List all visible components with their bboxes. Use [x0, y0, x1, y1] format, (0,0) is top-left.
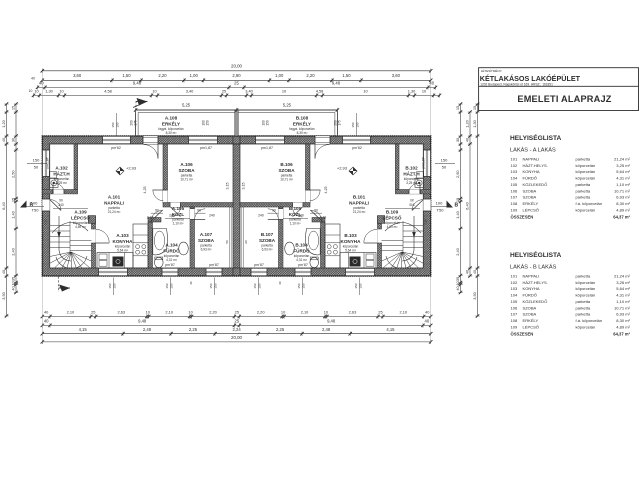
svg-text:2,63: 2,63 [349, 310, 357, 315]
svg-text:5,64 m²: 5,64 m² [345, 248, 356, 252]
svg-text:150: 150 [108, 283, 112, 288]
room label B.104 FURDO [293, 243, 310, 262]
svg-text:5,64 m²: 5,64 m² [117, 248, 128, 252]
apartment wing: bottom wall window (kitchen) [346, 268, 375, 276]
svg-text:4,31 m²: 4,31 m² [616, 293, 630, 298]
extension lines [42, 71, 430, 342]
washing machine in A.102 [415, 172, 423, 188]
svg-text:A.106: A.106 [180, 162, 193, 167]
svg-text:SZOBA: SZOBA [523, 312, 537, 317]
svg-text:8,30 m²: 8,30 m² [616, 318, 630, 323]
svg-text:KONYHA: KONYHA [523, 286, 540, 291]
svg-text:101: 101 [511, 157, 519, 162]
svg-text:107: 107 [511, 312, 519, 317]
svg-text:NAPPALI: NAPPALI [523, 274, 540, 279]
svg-text:150: 150 [214, 283, 218, 288]
svg-text:3,15: 3,15 [242, 183, 246, 190]
svg-text:ÖSSZESEN: ÖSSZESEN [511, 332, 534, 337]
apartment wing: bottom wall window (bathroom) [162, 268, 178, 276]
kitchen tall cabinets / fridge column [325, 224, 340, 268]
washbasin in A.104 [285, 242, 295, 255]
svg-text:A.109: A.109 [74, 210, 87, 215]
svg-text:6,93 m²: 6,93 m² [616, 195, 630, 200]
bottom dimension chain 9,48 [41, 319, 433, 328]
svg-text:102: 102 [511, 163, 519, 168]
wall bathroom / room A.107 [268, 207, 283, 268]
svg-text:T50: T50 [437, 208, 445, 213]
svg-text:1,50: 1,50 [122, 73, 131, 78]
svg-text:2,48: 2,48 [322, 327, 331, 332]
svg-text:175: 175 [337, 120, 341, 126]
right inner dimension chain [455, 102, 463, 294]
svg-text:LAKÁS - A LAKÁS: LAKÁS - A LAKÁS [510, 147, 556, 154]
svg-text:3,25 m²: 3,25 m² [616, 163, 630, 168]
svg-text:pm1,87: pm1,87 [46, 157, 50, 168]
shaft lining next to party wall [242, 207, 248, 268]
bottom dimension chain overall 20,00 [41, 335, 433, 344]
svg-text:1,20: 1,20 [1, 119, 6, 127]
svg-text:40: 40 [44, 319, 49, 324]
kitchen tall cabinets / fridge column [133, 224, 148, 268]
svg-text:150: 150 [209, 283, 213, 288]
apartment wing: left wall window (HAZT.H) [423, 150, 430, 177]
svg-text:LAKÁS - B LAKÁS: LAKÁS - B LAKÁS [510, 264, 557, 271]
svg-text:150: 150 [354, 283, 358, 288]
mini dimension lines hall doors [268, 213, 323, 218]
svg-text:3,25 m²: 3,25 m² [56, 181, 67, 185]
svg-text:B.103: B.103 [344, 233, 357, 238]
svg-text:40: 40 [429, 81, 434, 86]
top dimension chain 9,48 [36, 81, 437, 90]
staircase A.109 treads [40, 216, 101, 284]
svg-text:1,10 m²: 1,10 m² [616, 299, 630, 304]
svg-text:2,10: 2,10 [400, 310, 408, 315]
svg-text:2,10: 2,10 [67, 310, 75, 315]
svg-text:HÁZT.HELYS.: HÁZT.HELYS. [523, 280, 548, 285]
svg-text:4,25: 4,25 [324, 187, 328, 194]
svg-text:f.á. kőporcelán: f.á. kőporcelán [576, 201, 603, 206]
svg-text:3,60: 3,60 [392, 73, 401, 78]
svg-text:90: 90 [197, 209, 201, 213]
svg-text:kőporcelán: kőporcelán [576, 280, 596, 285]
svg-text:150: 150 [170, 283, 174, 288]
parapet labels side walls [44, 157, 428, 225]
bathtub (corner) in A.104 [306, 229, 321, 255]
svg-text:105: 105 [511, 299, 519, 304]
svg-text:FÜRDŐ: FÜRDŐ [293, 247, 310, 253]
svg-text:50: 50 [225, 240, 229, 244]
kitchen counter with sink and stove [97, 253, 133, 269]
wall kitchen / bathroom [148, 218, 161, 269]
svg-text:kőporcelán: kőporcelán [576, 286, 596, 291]
svg-text:6,93 m²: 6,93 m² [201, 247, 212, 251]
svg-text:1202 Budapest, Nagykőrösi út 1: 1202 Budapest, Nagykőrösi út 169. HRSZ.:… [480, 82, 553, 86]
window size marks above top wall (living room windows) [111, 113, 360, 136]
svg-text:240: 240 [169, 214, 175, 218]
top dimension chain detail [32, 88, 441, 97]
svg-text:pm'62: pm'62 [111, 146, 121, 150]
svg-text:kőporcelán: kőporcelán [576, 163, 596, 168]
room label B.105 KOZL [289, 206, 302, 225]
svg-text:2,10: 2,10 [424, 219, 428, 225]
svg-text:9,48: 9,48 [133, 81, 142, 86]
apartment wing: top wall window (living room) [103, 136, 131, 144]
svg-text:NAPPALI: NAPPALI [104, 200, 124, 205]
svg-text:SZOBA: SZOBA [523, 305, 537, 310]
svg-text:2,10: 2,10 [147, 216, 154, 220]
room label A.106 SZOBA [178, 162, 195, 181]
wall kitchen / bathroom [312, 218, 325, 269]
svg-text:21,24 m²: 21,24 m² [614, 157, 631, 162]
svg-text:64,37 m²: 64,37 m² [613, 215, 630, 220]
svg-text:40: 40 [39, 81, 44, 86]
apartment wing: entry door in left wall [42, 199, 61, 211]
svg-text:HÁZT.H: HÁZT.H [53, 170, 70, 176]
door leader label 100/T50 left with section mark B [20, 201, 44, 213]
svg-text:kőporcelán: kőporcelán [576, 207, 596, 212]
room label A.104 FURDO [163, 243, 180, 262]
svg-text:102: 102 [511, 280, 519, 285]
shaft lining next to party wall [225, 207, 231, 268]
door living room to bath corridor [151, 210, 163, 222]
svg-text:240: 240 [258, 214, 264, 218]
svg-text:109: 109 [511, 207, 519, 212]
svg-text:EMELETI ALAPRAJZ: EMELETI ALAPRAJZ [517, 94, 611, 104]
svg-text:B.101: B.101 [353, 195, 366, 200]
svg-text:100: 100 [436, 201, 443, 206]
svg-text:1,20: 1,20 [465, 119, 470, 127]
wall between HAZT.H and living room [395, 144, 399, 190]
parapet labels top wall [111, 146, 362, 150]
window leader label 150/50 left [27, 158, 47, 170]
room label A.102 HAZT.H [53, 166, 70, 185]
svg-text:1,40: 1,40 [455, 210, 460, 218]
apartment wing: top wall window (room A.106) [256, 136, 285, 144]
svg-text:1,40: 1,40 [11, 210, 16, 218]
svg-text:90: 90 [59, 199, 63, 203]
svg-text:5,25: 5,25 [283, 102, 292, 107]
svg-text:1,10 m²: 1,10 m² [616, 182, 630, 187]
svg-text:2,20: 2,20 [257, 310, 265, 315]
svg-text:2,48: 2,48 [143, 327, 152, 332]
svg-text:2,20: 2,20 [209, 310, 217, 315]
room list B table rows [511, 274, 631, 337]
svg-text:2,50: 2,50 [11, 170, 16, 178]
svg-text:B.106: B.106 [280, 162, 293, 167]
hall door size labels [385, 199, 420, 209]
svg-text:3,25 m²: 3,25 m² [616, 280, 630, 285]
window leader label 150/50 right [435, 158, 455, 170]
svg-text:6,40: 6,40 [465, 201, 470, 209]
svg-text:FÜRDŐ: FÜRDŐ [523, 176, 537, 181]
interior dimension labels [143, 183, 328, 220]
svg-text:104: 104 [511, 293, 519, 298]
top dimension chain overall 20,00 [41, 64, 433, 73]
svg-text:parketta: parketta [576, 195, 591, 200]
svg-text:4,89 m²: 4,89 m² [75, 225, 86, 229]
svg-text:3,40: 3,40 [186, 88, 194, 93]
svg-text:HÁZT.HELYS.: HÁZT.HELYS. [523, 163, 548, 168]
svg-text:2,63: 2,63 [117, 310, 125, 315]
room list A heading [510, 133, 562, 154]
svg-text:pm1,87: pm1,87 [261, 146, 273, 150]
svg-text:KONYHA: KONYHA [113, 239, 134, 244]
svg-text:9,48: 9,48 [332, 81, 341, 86]
apartment wing: bottom wall window (kitchen) [99, 268, 128, 276]
svg-text:150: 150 [165, 283, 169, 288]
svg-text:KÖZLEKEDŐ: KÖZLEKEDŐ [523, 182, 548, 187]
svg-text:21,24 m²: 21,24 m² [614, 274, 631, 279]
svg-text:A.105: A.105 [172, 206, 185, 211]
svg-text:1,30: 1,30 [45, 88, 53, 93]
room label B.108 ERKELY [289, 116, 314, 135]
svg-text:4,58: 4,58 [316, 88, 324, 93]
title block frame [479, 68, 639, 111]
bottom dimension chain rooms [41, 327, 433, 336]
svg-text:25: 25 [91, 310, 95, 315]
svg-text:107: 107 [511, 195, 519, 200]
level marker +2,93 (A) [116, 166, 137, 176]
balcony divider wall [235, 110, 238, 136]
svg-text:6,40: 6,40 [1, 201, 6, 209]
svg-text:10,71 m²: 10,71 m² [614, 305, 631, 310]
svg-text:9,48: 9,48 [138, 319, 147, 324]
building outline [42, 136, 430, 276]
WC in A.104 [310, 257, 319, 268]
svg-text:15: 15 [472, 106, 477, 110]
svg-text:5,64 m²: 5,64 m² [616, 169, 630, 174]
apartment wing: bottom wall window (bathroom) [295, 268, 311, 276]
svg-text:15: 15 [455, 106, 460, 110]
svg-text:3,60: 3,60 [73, 73, 82, 78]
svg-text:parketta: parketta [576, 157, 591, 162]
apartment B geometry (mirror of A) [240, 136, 433, 284]
room label A.103 KONYHA [113, 233, 134, 252]
svg-text:LÉPCSŐ: LÉPCSŐ [383, 213, 402, 220]
svg-text:5,64 m²: 5,64 m² [616, 286, 630, 291]
svg-text:parketta: parketta [576, 305, 591, 310]
svg-text:90: 90 [272, 209, 276, 213]
svg-text:150: 150 [356, 122, 360, 127]
room label B.109 LEPCSO [383, 210, 402, 229]
svg-text:240: 240 [298, 214, 304, 218]
svg-text:ERKÉLY: ERKÉLY [523, 201, 539, 206]
svg-text:40: 40 [189, 281, 193, 285]
svg-text:64,37 m²: 64,37 m² [613, 332, 630, 337]
svg-text:pm'62: pm'62 [352, 146, 362, 150]
svg-text:KÖZLEKEDŐ: KÖZLEKEDŐ [523, 299, 548, 304]
svg-text:B: B [30, 203, 34, 209]
svg-text:25: 25 [235, 310, 239, 315]
svg-text:103: 103 [511, 286, 519, 291]
svg-text:FÜRDŐ: FÜRDŐ [163, 247, 180, 253]
svg-text:pm'87: pm'87 [165, 263, 175, 267]
svg-text:B.104: B.104 [295, 243, 308, 248]
room label A.108 ERKELY [158, 116, 183, 135]
svg-text:B.107: B.107 [261, 232, 274, 237]
svg-text:LÉTESÍTMÉNY:: LÉTESÍTMÉNY: [481, 68, 503, 73]
svg-text:150: 150 [113, 283, 117, 288]
wall under HAZT.H with door [42, 183, 77, 194]
svg-text:150: 150 [111, 122, 115, 127]
svg-text:2,20: 2,20 [306, 73, 315, 78]
svg-text:8,30 m²: 8,30 m² [616, 201, 630, 206]
svg-text:50: 50 [244, 240, 248, 244]
staircase A.109 treads [373, 216, 434, 284]
svg-text:A.108: A.108 [165, 116, 178, 121]
mini dimension lines hall doors [151, 213, 206, 218]
stair door pier block [378, 216, 385, 224]
svg-text:SZOBA: SZOBA [259, 238, 276, 243]
svg-text:2,24: 2,24 [233, 327, 242, 332]
svg-text:150: 150 [253, 283, 257, 288]
svg-text:4,89 m²: 4,89 m² [616, 324, 630, 329]
svg-text:8,30 m²: 8,30 m² [166, 131, 177, 135]
svg-text:1,30: 1,30 [408, 88, 416, 93]
svg-text:NAPPALI: NAPPALI [349, 200, 369, 205]
svg-text:10,71 m²: 10,71 m² [180, 177, 193, 181]
svg-text:A.104: A.104 [165, 243, 178, 248]
apartment wing: top wall window (room A.106) [189, 136, 218, 144]
title block: project name [480, 68, 581, 86]
svg-text:KONYHA: KONYHA [523, 169, 540, 174]
svg-text:104: 104 [511, 176, 519, 181]
right middle dimension chain [465, 110, 473, 277]
svg-text:2,20: 2,20 [158, 73, 167, 78]
svg-text:150: 150 [33, 158, 40, 163]
svg-text:150: 150 [116, 122, 120, 127]
svg-text:A.101: A.101 [108, 195, 121, 200]
svg-text:3,25 m²: 3,25 m² [406, 181, 417, 185]
svg-text:50: 50 [34, 164, 39, 169]
svg-text:25: 25 [222, 88, 226, 93]
apartment wing: balcony door opening [315, 136, 330, 144]
svg-text:B.102: B.102 [405, 166, 418, 171]
door living room to bath corridor [310, 210, 322, 222]
svg-text:2,25: 2,25 [276, 327, 285, 332]
svg-text:25: 25 [378, 310, 382, 315]
svg-text:kőporcelán: kőporcelán [576, 169, 596, 174]
svg-text:kőporcelán: kőporcelán [576, 324, 596, 329]
svg-text:pm1,87: pm1,87 [422, 157, 426, 168]
opening size labels balcony [130, 120, 342, 126]
svg-text:9,48: 9,48 [327, 319, 336, 324]
wall bathroom / room A.107 [190, 207, 205, 268]
svg-text:8,30 m²: 8,30 m² [297, 131, 308, 135]
apartment wing: bottom wall window (room A.107) [251, 268, 267, 276]
room list A table rows [511, 157, 631, 220]
svg-text:90: 90 [155, 209, 159, 213]
svg-text:25: 25 [234, 81, 239, 86]
svg-text:pm'87: pm'87 [298, 263, 308, 267]
svg-text:2,10: 2,10 [301, 310, 309, 315]
wall under HAZT.H with door [395, 183, 430, 194]
balcony dimension 5,25 [134, 102, 339, 112]
svg-text:pm'87: pm'87 [209, 263, 219, 267]
svg-text:parketta: parketta [576, 312, 591, 317]
svg-text:10,71 m²: 10,71 m² [280, 177, 293, 181]
svg-text:A.107: A.107 [200, 232, 213, 237]
svg-text:15: 15 [11, 106, 16, 110]
door leader label 100/T50 right with section mark B [431, 201, 459, 213]
apartment wing: top wall window (living room) [343, 136, 371, 144]
svg-text:2,10: 2,10 [44, 219, 48, 225]
section line marker (top) [133, 98, 148, 110]
svg-text:50: 50 [442, 164, 447, 169]
room label B.107 SZOBA [259, 232, 276, 251]
svg-text:3,40: 3,40 [245, 88, 253, 93]
svg-text:NAPPALI: NAPPALI [523, 157, 540, 162]
svg-text:B.108: B.108 [296, 116, 309, 121]
svg-text:5,25: 5,25 [182, 102, 191, 107]
apartment wing: entry door in left wall [412, 199, 431, 211]
wall living room / room A.106 [306, 144, 321, 203]
svg-text:4,89 m²: 4,89 m² [616, 207, 630, 212]
svg-text:90: 90 [410, 199, 414, 203]
svg-text:1,30: 1,30 [472, 119, 477, 127]
svg-text:108: 108 [511, 318, 519, 323]
apartment A geometry [40, 136, 233, 284]
washbasin in A.104 [179, 242, 189, 255]
svg-text:150: 150 [297, 283, 301, 288]
svg-text:101: 101 [511, 274, 519, 279]
exterior wall band (hatched) [42, 136, 430, 276]
svg-text:1,10 m²: 1,10 m² [290, 221, 301, 225]
room label A.109 LEPCSO [71, 210, 90, 229]
svg-text:20,00: 20,00 [231, 335, 243, 340]
svg-text:1,50: 1,50 [342, 73, 351, 78]
bottom dimension chain detail [41, 310, 433, 319]
svg-text:4,25: 4,25 [143, 187, 147, 194]
svg-text:LÉPCSŐ: LÉPCSŐ [71, 213, 90, 220]
window size marks below bottom wall [108, 278, 363, 296]
svg-text:4,31 m²: 4,31 m² [296, 258, 307, 262]
top dimension chain openings [41, 73, 433, 82]
svg-text:35: 35 [455, 277, 460, 281]
svg-text:2,25: 2,25 [189, 327, 198, 332]
svg-text:SZOBA: SZOBA [523, 188, 537, 193]
room label B.102 HAZT.H [403, 166, 420, 185]
svg-text:SZOBA: SZOBA [278, 168, 295, 173]
svg-text:A.102: A.102 [55, 166, 68, 171]
svg-text:ERKÉLY: ERKÉLY [293, 119, 311, 126]
apartment wing: left wall window (HAZT.H) [42, 150, 49, 177]
svg-text:105: 105 [511, 182, 519, 187]
svg-text:parketta: parketta [576, 182, 591, 187]
svg-text:1,00: 1,00 [275, 73, 284, 78]
svg-text:3,50: 3,50 [1, 291, 6, 299]
svg-text:1,00: 1,00 [190, 73, 199, 78]
svg-text:10,71 m²: 10,71 m² [614, 188, 631, 193]
svg-text:175: 175 [134, 120, 138, 126]
svg-text:150: 150 [258, 283, 262, 288]
svg-text:150: 150 [205, 120, 209, 126]
svg-text:2,40: 2,40 [455, 247, 460, 255]
svg-text:ÖSSZESEN: ÖSSZESEN [511, 215, 534, 220]
svg-text:40: 40 [31, 77, 35, 81]
title block: drawing title EMELETI ALAPRAJZ [517, 94, 611, 104]
svg-text:kőporcelán: kőporcelán [576, 293, 596, 298]
svg-text:4,58: 4,58 [104, 88, 112, 93]
section line marker (bottom, A) [59, 277, 70, 293]
svg-text:109: 109 [511, 324, 519, 329]
room label A.107 SZOBA [198, 232, 215, 251]
top-left small dim labels [29, 77, 35, 94]
wall below room A.106 (corridor north wall) [163, 203, 233, 218]
svg-text:HELYISÉGLISTA: HELYISÉGLISTA [510, 250, 562, 259]
svg-text:f.á. kőporcelán: f.á. kőporcelán [576, 318, 603, 323]
wall living room / room A.106 [153, 144, 168, 203]
